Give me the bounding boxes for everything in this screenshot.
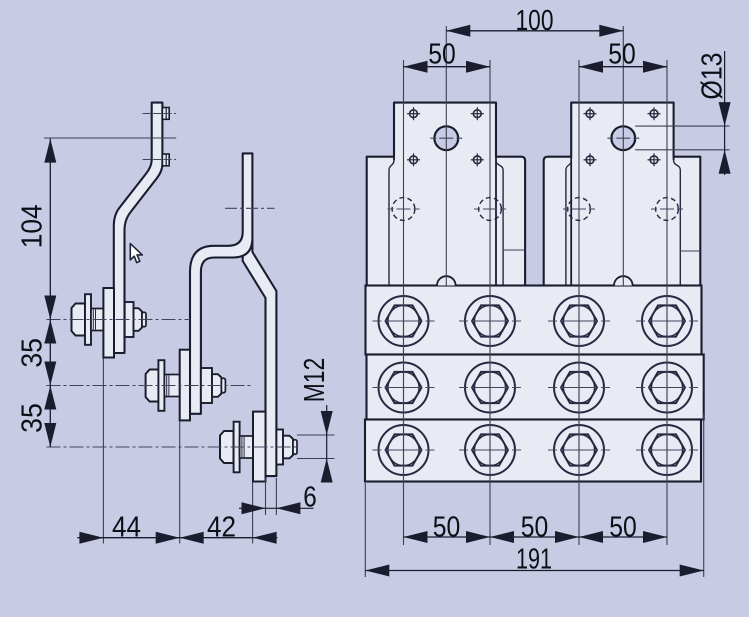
bolt M12 row1 col4 <box>642 296 692 346</box>
dimension 6 arrows <box>242 502 266 514</box>
hidden hole column 1 <box>392 198 415 221</box>
wire bolt cross row2 col1 <box>373 357 435 419</box>
conductor bar 2 <box>190 153 252 413</box>
wire big-hole-2 centerline <box>622 26 624 286</box>
svg-text:6: 6 <box>303 482 317 514</box>
tab bolt head 2 <box>162 154 169 166</box>
svg-text:104: 104 <box>17 204 49 248</box>
small hole 6 <box>648 107 661 120</box>
big hole 2 (O13) <box>611 126 635 150</box>
bolt M12 row1 col3 <box>554 296 604 346</box>
dimension 6 line <box>239 507 314 509</box>
dimension 42 arrows <box>180 532 204 544</box>
small hole 3 <box>407 153 420 166</box>
svg-text:50: 50 <box>608 39 636 71</box>
wire 44-42 extension col2 <box>179 420 181 543</box>
dimension 191 line <box>365 570 703 572</box>
dimension O13 tangent lines <box>635 125 729 127</box>
conductor bar 3 <box>243 240 277 476</box>
wire tab bolt 1 centerline <box>143 113 176 115</box>
bolt M12 row3 col2 <box>465 425 515 475</box>
svg-text:50: 50 <box>433 511 461 543</box>
wire hidden hole 2 h-centerline <box>474 208 506 210</box>
left half upper body with tab <box>367 103 525 286</box>
wire 191 left extension <box>364 483 366 577</box>
wire right tab outer edge stub <box>673 157 675 161</box>
svg-text:44: 44 <box>112 511 141 543</box>
svg-text:M12: M12 <box>299 358 331 403</box>
wire 191 right extension <box>703 413 705 577</box>
svg-text:42: 42 <box>207 511 236 543</box>
dimension bottom-50 line <box>404 536 668 538</box>
wire big-hole axis extension <box>44 137 176 139</box>
dimension O13 arrows <box>719 102 731 126</box>
small hole 1 <box>407 107 420 120</box>
tab bolt head 1 split <box>165 108 167 120</box>
dimension 100 right arrow <box>599 25 623 37</box>
dimension M12 vertical line <box>326 405 328 482</box>
right half upper body with tab <box>544 103 701 286</box>
dimension 100 left arrow <box>446 25 470 37</box>
bolt M12 row3 col1 <box>379 425 429 475</box>
small hole 5 <box>584 107 597 120</box>
dimension 35-1 arrows <box>44 320 56 344</box>
bolt M12 row2 col3 <box>554 363 604 413</box>
hidden hole column 3 <box>568 198 591 221</box>
wire column-1 extension line <box>403 60 405 545</box>
dimension 50 top-right arrows <box>579 61 603 73</box>
hidden hole column 2 <box>479 198 502 221</box>
wire tab bolt 2 centerline <box>143 159 176 161</box>
wire bolt axis 3 centerline <box>47 446 299 448</box>
wire 44-42 extension col1 <box>102 358 104 544</box>
svg-text:50: 50 <box>521 511 549 543</box>
svg-text:100: 100 <box>516 5 554 37</box>
wire bolt cross row2 col4 <box>636 357 698 419</box>
wire right tab inner jog <box>566 160 571 285</box>
bolt assembly 3 <box>220 412 297 482</box>
dimension O13 vertical line <box>724 51 726 175</box>
wire tick right body edge <box>680 250 700 252</box>
dimension 44-42 line <box>77 537 277 539</box>
wire right tab inner edge <box>570 157 572 286</box>
wire bar2 hole centerline <box>225 207 275 209</box>
wire hidden hole 4 h-centerline <box>651 208 683 210</box>
wire bolt cross row2 col3 <box>548 357 610 419</box>
wire bolt cross row1 col3 <box>548 290 610 352</box>
notch under big hole 1 <box>437 276 456 285</box>
wire big hole 1 h-centerline <box>430 137 462 139</box>
dimension 191 arrows <box>365 565 389 577</box>
dimension 104 line <box>49 139 51 447</box>
svg-text:191: 191 <box>516 543 552 575</box>
svg-text:Ø13: Ø13 <box>697 53 729 100</box>
wire hidden hole 1 h-centerline <box>388 208 420 210</box>
mouse cursor <box>130 244 142 263</box>
bolt block row 2 <box>367 355 704 420</box>
small hole 2 <box>471 107 484 120</box>
dimension 50 top-left line <box>404 66 491 68</box>
wire hidden hole 3 h-centerline <box>563 208 595 210</box>
wire bolt cross row3 col4 <box>636 419 698 481</box>
wire bolt cross row3 col2 <box>459 419 521 481</box>
wire bolt cross row1 col4 <box>636 290 698 352</box>
wire column-2 extension line <box>489 60 491 545</box>
wire bolt cross row1 col2 <box>459 290 521 352</box>
dimension M12 arrows <box>321 411 333 435</box>
bolt block row 3 <box>365 420 701 482</box>
tab bolt head 2 split <box>165 154 167 166</box>
hidden hole column 4 <box>656 198 679 221</box>
dimension 100 line <box>446 30 623 32</box>
notch under big hole 2 <box>614 276 633 285</box>
dimension 44 arrows <box>79 532 103 544</box>
svg-text:35: 35 <box>17 338 49 368</box>
bolt M12 row2 col2 <box>465 363 515 413</box>
big hole 1 (O13) <box>434 126 458 150</box>
wire bolt cross row3 col1 <box>373 419 435 481</box>
dimension bottom-50 arrows <box>404 531 428 543</box>
bolt M12 row3 col4 <box>642 425 692 475</box>
wire column-3 extension line <box>578 60 580 545</box>
svg-text:35: 35 <box>17 403 49 433</box>
wire left tab inner edge <box>495 157 497 286</box>
bolt block row 1 <box>366 286 702 355</box>
wire tick left of slot <box>503 249 525 251</box>
bolt assembly 1 <box>72 288 147 358</box>
wire left tab outer jog <box>389 160 394 285</box>
wire bolt axis 2 centerline <box>47 385 253 387</box>
small hole 7 <box>584 153 597 166</box>
wire 44-42 extension col3 <box>252 482 254 544</box>
wire 6 extension lines <box>265 478 267 515</box>
svg-text:50: 50 <box>609 511 637 543</box>
wire bolt cross row1 col1 <box>373 290 435 352</box>
bolt M12 row2 col4 <box>642 363 692 413</box>
wire right tab outer jog <box>674 160 681 285</box>
dimension 50 top-right line <box>579 66 667 68</box>
tab bolt head 1 <box>162 108 169 120</box>
bolt M12 row1 col1 <box>379 296 429 346</box>
svg-text:50: 50 <box>428 39 456 71</box>
dimension 50 top-left arrows <box>404 61 428 73</box>
wire bolt axis 1 centerline <box>47 319 191 321</box>
bolt M12 row1 col2 <box>465 296 515 346</box>
wire left tab outer edge stub <box>393 157 395 161</box>
wire bolt cross row3 col3 <box>548 419 610 481</box>
small hole 4 <box>471 153 484 166</box>
wire big-hole-1 centerline <box>445 26 447 286</box>
dimension 104 top arrow <box>44 139 56 163</box>
wire bolt cross row2 col2 <box>459 357 521 419</box>
wire big hole 2 h-centerline <box>607 137 639 139</box>
dimension 35-2 arrows <box>44 386 56 410</box>
bolt M12 row2 col1 <box>379 363 429 413</box>
bolt assembly 2 <box>146 350 226 421</box>
bolt M12 row3 col3 <box>554 425 604 475</box>
dimension 104 bottom arrow <box>44 296 56 320</box>
small hole 8 <box>648 153 661 166</box>
dimension M12 tangent lines <box>297 434 335 436</box>
wire column-4 extension line <box>666 60 668 545</box>
conductor bar 1 <box>114 103 163 353</box>
wire left tab inner jog <box>496 160 503 285</box>
